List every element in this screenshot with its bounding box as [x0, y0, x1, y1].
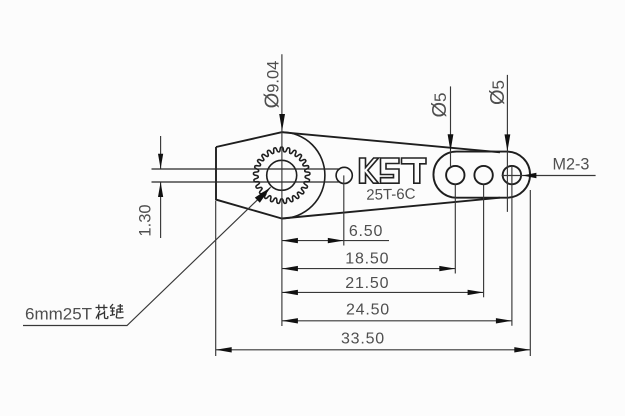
left edge extension line	[215, 201, 217, 356]
6.50 dimension	[282, 240, 389, 242]
svg-text:18.50: 18.50	[345, 250, 389, 267]
1.30 dimension	[160, 136, 162, 169]
hole1 extension line	[454, 184, 456, 273]
svg-text:Ø5: Ø5	[429, 92, 451, 117]
svg-text:24.50: 24.50	[346, 302, 390, 319]
hole2 extension line	[483, 184, 485, 297]
hanzi hua	[96, 305, 108, 320]
dia 5 leader 2	[506, 75, 508, 212]
servo arm outline	[216, 132, 500, 218]
hole3 center extension line	[511, 166, 513, 326]
hole 2	[474, 166, 492, 184]
keyhole extension line	[343, 175, 345, 245]
hole 1	[446, 166, 464, 184]
slot lines	[152, 169, 340, 182]
svg-text:21.50: 21.50	[345, 275, 389, 292]
svg-text:Ø5: Ø5	[487, 80, 509, 105]
hanzi jian	[110, 304, 124, 318]
33.50 dimension	[216, 349, 531, 351]
center line	[281, 54, 283, 326]
18.50 dimension	[282, 268, 455, 270]
svg-text:25T-6C: 25T-6C	[366, 186, 416, 204]
dia 9.04 leader arrow	[279, 114, 285, 131]
dia 5 leader 1	[450, 86, 452, 166]
svg-text:M2-3: M2-3	[553, 155, 590, 173]
svg-text:1.30: 1.30	[137, 204, 155, 236]
svg-text:Ø9.04: Ø9.04	[262, 61, 284, 109]
bore circle	[267, 160, 297, 190]
spline leader	[23, 187, 271, 325]
KST logo K	[360, 158, 379, 183]
KST logo S	[381, 158, 400, 183]
21.50 dimension	[282, 291, 484, 293]
svg-text:6.50: 6.50	[349, 223, 383, 240]
right edge extension line	[529, 190, 531, 356]
boss circle	[282, 132, 325, 218]
stadium boss outline	[433, 152, 530, 198]
M2-3 leader	[502, 175, 596, 177]
spline gear	[254, 147, 310, 203]
svg-text:33.50: 33.50	[341, 331, 385, 348]
24.50 dimension	[282, 320, 512, 322]
hole 3	[503, 166, 521, 184]
svg-text:6mm25T: 6mm25T	[25, 305, 92, 324]
KST logo T	[402, 158, 427, 183]
keyhole circle	[336, 167, 352, 183]
